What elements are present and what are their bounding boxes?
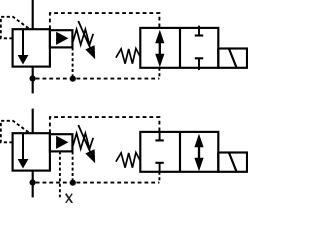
dashed drain rail xyxy=(36,182,160,184)
port label X xyxy=(66,194,73,203)
valve position divider xyxy=(179,28,181,68)
closed position top T bar xyxy=(195,34,203,36)
solenoid diagonal xyxy=(229,153,237,172)
valve return spring xyxy=(116,49,140,64)
pilot stage box xyxy=(50,134,73,151)
dashed drain rail xyxy=(36,78,160,80)
closed position bottom stem+stub xyxy=(198,58,200,70)
2/2 solenoid valve body (lower) xyxy=(140,132,218,172)
junction node on drain rail xyxy=(70,180,76,186)
solenoid actuator box xyxy=(218,153,247,172)
dashed pilot return below valve xyxy=(158,172,160,183)
wire T outlet below relief valve xyxy=(32,171,34,198)
pilot stage box xyxy=(50,30,73,47)
pilot stage triangle xyxy=(56,136,68,149)
dashed pilot loop at left of relief valve xyxy=(1,121,29,143)
relief valve flow arrow xyxy=(22,29,24,57)
dashed pilot line to solenoid valve xyxy=(50,13,159,29)
open position double arrow (left box) xyxy=(159,41,161,55)
junction node on drain rail xyxy=(70,76,76,82)
closed position bottom T bar xyxy=(195,57,203,59)
wire P supply into relief valve (upper) xyxy=(32,0,34,29)
pressure relief valve body (upper) xyxy=(13,29,50,66)
junction node on outlet xyxy=(29,75,35,81)
dashed external drain to port X xyxy=(59,151,61,197)
relief valve flow arrow xyxy=(22,133,24,161)
adjustable relief spring xyxy=(72,133,93,149)
junction node on outlet xyxy=(29,179,35,185)
solenoid diagonal xyxy=(229,49,237,68)
dashed pilot-stage drain xyxy=(72,151,74,182)
valve position divider xyxy=(179,132,181,172)
wire T outlet below relief valve xyxy=(32,67,34,94)
dashed pilot line to solenoid valve xyxy=(50,117,159,133)
solenoid actuator box xyxy=(218,49,247,68)
dashed pilot loop at left of relief valve xyxy=(1,17,29,39)
dashed pilot-stage drain xyxy=(72,47,74,78)
pilot stage triangle xyxy=(56,32,68,45)
adjustable relief spring xyxy=(72,29,93,45)
closed position top stem+stub xyxy=(198,26,200,36)
closed position bottom stem xyxy=(159,163,161,172)
wire P supply into relief valve (lower) xyxy=(32,109,34,134)
closed position top T bar xyxy=(155,139,163,141)
closed position bottom T bar xyxy=(155,162,163,164)
spring adjustment arrow xyxy=(78,125,91,153)
dashed pilot return below valve xyxy=(158,68,160,79)
pressure relief valve body (lower) xyxy=(13,133,50,170)
open position double arrow (right box) xyxy=(198,145,200,159)
valve return spring xyxy=(116,153,140,168)
spring adjustment arrow xyxy=(78,21,91,49)
2/2 solenoid valve body (upper) xyxy=(140,28,218,68)
closed position top stem xyxy=(159,132,161,141)
